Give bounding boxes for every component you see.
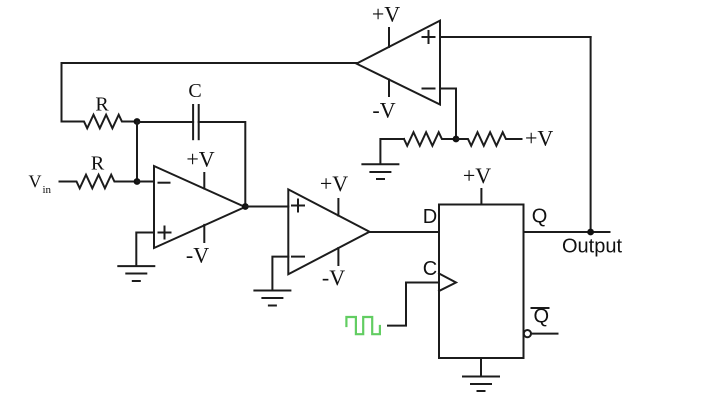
U1 -V supply tick: [203, 225, 205, 242]
wire right vertical feedback line: [590, 37, 592, 232]
U1 minus sign: [159, 182, 170, 184]
wire capacitor to node B (down): [199, 122, 246, 207]
resistor R1 (feedback R): [62, 115, 138, 129]
U1 plus sign: [159, 227, 171, 239]
svg-text:D: D: [423, 206, 437, 228]
svg-text:+V: +V: [186, 147, 214, 172]
ground G1 (U1 + input): [118, 266, 154, 281]
wire U3 non-inverting input to right feedback line: [440, 36, 591, 38]
U2 +V supply tick: [337, 199, 339, 216]
svg-text:V: V: [29, 172, 42, 192]
wire U1 non-inverting input to ground: [136, 233, 154, 267]
svg-text:Output: Output: [562, 236, 622, 258]
svg-text:-V: -V: [322, 265, 345, 290]
op-amp U2 (comparator): [288, 189, 369, 274]
wire node A to capacitor: [137, 121, 193, 123]
wire feedback top-left (U3 output to R1): [62, 63, 357, 122]
U2 plus sign: [292, 200, 304, 212]
svg-text:+V: +V: [525, 126, 553, 151]
U2 -V supply tick: [337, 248, 339, 265]
resistor R4 (divider, to +V): [456, 132, 522, 146]
wire node C to U1 inverting input: [137, 181, 154, 183]
U1 +V supply tick: [203, 173, 205, 189]
wire U4 ground lead: [480, 358, 482, 377]
svg-text:-V: -V: [186, 243, 209, 268]
U4 +V supply tick: [480, 189, 482, 205]
svg-text:Q: Q: [532, 206, 548, 228]
node A junction (R1 / C1 / vertical): [134, 118, 141, 125]
U3 +V supply tick: [388, 28, 390, 47]
U3 -V supply tick: [388, 80, 390, 97]
svg-text:R: R: [91, 152, 105, 174]
op-amp U3 (feedback comparator, points left): [357, 21, 441, 105]
svg-text:C: C: [188, 80, 201, 102]
node C junction (R2 / R1 node / U1 inverting input): [134, 178, 141, 185]
U2 minus sign: [292, 256, 304, 258]
wire clock input to U4 C: [388, 283, 439, 326]
svg-text:R: R: [95, 94, 109, 116]
svg-text:Q: Q: [534, 306, 550, 328]
ground G2 (U2 - input): [254, 291, 290, 306]
svg-text:+V: +V: [320, 171, 348, 196]
svg-text:in: in: [43, 184, 52, 196]
node D junction (divider midpoint): [453, 136, 460, 143]
D flip-flop U4 body: [439, 205, 524, 359]
wire U4 Q output to Output node: [524, 231, 610, 233]
U4 Qbar bubble: [524, 330, 531, 337]
node Output junction: [587, 229, 594, 236]
wire U3 inverting input to divider junction: [440, 89, 456, 140]
Qbar overline: [532, 307, 549, 309]
wire divider ground lead: [380, 139, 404, 164]
wire node B to U2 non-inverting input: [245, 206, 288, 208]
resistor R3 (divider, to ground): [404, 132, 456, 146]
wire U2 output to flip-flop D input: [370, 231, 440, 233]
svg-text:C: C: [423, 258, 437, 280]
wire vertical node A to node C: [136, 122, 138, 182]
U3 plus sign: [423, 31, 435, 43]
svg-text:+V: +V: [463, 163, 491, 188]
clock source square wave (green): [346, 317, 380, 334]
capacitor C1: [193, 105, 199, 139]
svg-text:-V: -V: [372, 97, 395, 122]
node B junction (U1 output / C1 feedback): [242, 203, 249, 210]
wire U2 inverting input to ground: [272, 257, 288, 291]
U4 clock edge triangle: [439, 274, 456, 292]
resistor R2 (input R from Vin): [60, 175, 138, 189]
ground G4 (flip-flop): [463, 377, 499, 392]
svg-text:+V: +V: [372, 2, 400, 27]
ground G3 (divider): [362, 164, 398, 179]
U3 minus sign: [423, 88, 435, 90]
op-amp U1 (integrator): [154, 166, 245, 248]
wire U4 Qbar output: [531, 333, 558, 335]
